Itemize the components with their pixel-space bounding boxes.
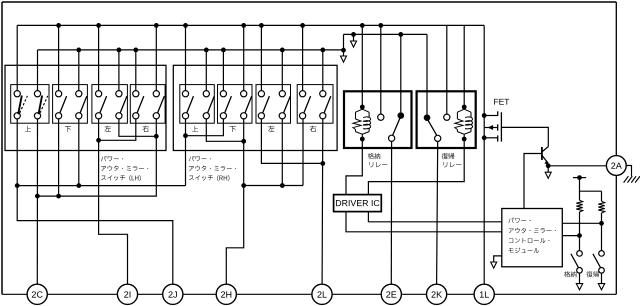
node: coil1 bottom dot: [360, 137, 365, 142]
node: coil1 top dot: [360, 105, 365, 110]
switch lever: [137, 96, 144, 113]
wire: coil2 bottom to DRIVER IC: [368, 139, 464, 195]
node dots RH area: [183, 133, 188, 138]
wire: RH upper jog (up-L dot to down-L contact): [186, 119, 224, 136]
switch contact circles col x=78.8: [76, 91, 82, 97]
FET body arrow: [487, 125, 493, 130]
node dots LH area: [96, 138, 101, 143]
wire: LH col 156.3 down to wire2 corner: [38, 119, 157, 196]
node dots on switch columns: [577, 233, 582, 238]
connector 2H: [216, 284, 236, 304]
wire + ground arrow: [601, 273, 603, 284]
switch lever: [263, 96, 270, 113]
relay 2 (return relay) box: [417, 91, 476, 148]
wire + ground arrow: [579, 273, 581, 284]
label 右: [142, 126, 148, 132]
relay2 NC contact: [446, 25, 448, 114]
node: coil2 bottom dot: [462, 137, 467, 142]
wire: bar down and across to both resistors: [580, 178, 602, 192]
switch lever: [245, 96, 252, 113]
module label text: [509, 238, 550, 243]
resistor R1 (retract): [579, 191, 581, 200]
relay1 NC contact: [380, 25, 382, 114]
switch contact circles col x=243.7: [241, 91, 247, 97]
block label text: [101, 166, 148, 171]
switch contact circles: [599, 251, 605, 257]
wire: relay1 lever down to 2E: [390, 141, 392, 284]
wire: bottom connector line segments: [2, 293, 27, 295]
power outer mirror control module box: [502, 209, 563, 267]
arrow: to other circuit (from bus1b): [353, 34, 355, 41]
label 下: [65, 126, 71, 132]
arrow: to other circuit (from bus2 end): [343, 50, 345, 56]
relay1 coil column from bus1: [361, 25, 363, 107]
relay coil body: [463, 107, 465, 109]
wire: RH left-L to right-R link at y=163.4: [261, 119, 322, 163]
wire: bus 1b (relay contact feed): [344, 33, 428, 35]
switch contact circles col x=135.8: [133, 91, 139, 97]
switch sub-box 左: [92, 85, 128, 124]
relay1 armature contact + lever: [389, 135, 395, 141]
wire: emitter to 2A: [548, 165, 606, 167]
connector 1L: [474, 284, 494, 304]
relay2 coil column from bus1: [463, 25, 465, 107]
switch lever: [120, 96, 127, 113]
block label text: [189, 175, 229, 181]
connector 2I: [117, 284, 137, 304]
module label text: [509, 248, 539, 253]
wire: bus1 down FET column to 1L: [483, 25, 485, 284]
label 下: [230, 126, 236, 132]
switch contact circles col x=185.5: [182, 91, 188, 97]
switch contact circles col x=98.6: [96, 91, 102, 97]
relay2 armature contact + lever: [435, 135, 441, 141]
switch sub-box 右: [297, 85, 333, 124]
wires: bus to top contacts: [16, 25, 18, 90]
label 復帰リレー: [442, 153, 455, 159]
label 上: [192, 126, 198, 132]
wire: LH col 17.2 down: [16, 119, 18, 186]
wire: LH col 98.6 down, jog to 2I: [99, 119, 128, 284]
FET gate bar: [500, 112, 502, 141]
wire: bus 2: [38, 49, 344, 51]
wire: R1 down to switch: [579, 212, 581, 250]
switch lever (rest position, dashed): [20, 96, 28, 113]
connector 2C: [27, 284, 47, 304]
connector 2E: [381, 284, 401, 304]
FET symbol: channel segments: [497, 111, 499, 116]
label: [586, 271, 599, 277]
wire 3 to 2J: [17, 186, 173, 285]
DRIVER IC box: [334, 195, 382, 212]
switch lever (actuated, solid): [18, 96, 22, 115]
wire: RH col 185.5 down to wire1L end: [185, 119, 187, 186]
wire: top bus 1: [17, 24, 484, 26]
relay 1 (retract relay) box: [344, 91, 412, 148]
switch lever: [593, 254, 601, 268]
wire: LH col 37.5 down to 2C: [36, 119, 38, 284]
switch contact circles col x=17.2: [14, 91, 20, 97]
resistor R2 (return): [601, 191, 603, 201]
module label text: [509, 228, 556, 233]
switch sub-box 上: [180, 85, 215, 124]
wire: bus1b-to-bus2 link: [343, 34, 345, 50]
connector 2A: [606, 156, 626, 176]
wire: RH col 303 down to wire1R corner: [302, 119, 304, 186]
label FET: [494, 99, 509, 105]
switch sub-box 下: [218, 85, 253, 124]
node: emitter junction: [546, 163, 551, 168]
switch contact circles col x=282.3: [279, 91, 285, 97]
label 左: [268, 126, 274, 132]
wire: coil1 bottom to DRIVER IC: [346, 139, 362, 195]
label 左: [105, 126, 111, 132]
switch sub-box 左: [256, 85, 291, 124]
switch contact circles col x=118.9: [116, 91, 122, 97]
switch contact circles col x=156.3: [153, 91, 159, 97]
switch contact circles col x=302.6: [300, 91, 306, 97]
node: coil2 top dot: [462, 105, 467, 110]
node: junction dots on bus1: [56, 23, 61, 28]
wire: right border top segment (frame to connector 2A): [615, 2, 617, 156]
switch lever: [225, 96, 232, 113]
switch sub-box 右: [130, 85, 165, 124]
wire: R2 down to switch: [601, 213, 603, 250]
wire: FET drain to transistor collector: [501, 127, 548, 146]
wire: RH col 243.7 down, jog to 2H: [226, 119, 243, 284]
switch contact circles: [577, 251, 583, 257]
wire: module right to retract switch line: [562, 235, 579, 237]
switch contact circles col x=223.4: [220, 91, 226, 97]
switch lever: [304, 96, 311, 113]
relay2 NO contact (filled) from bus1b: [426, 34, 428, 114]
switch lever: [157, 96, 164, 113]
switch lever: [571, 254, 579, 268]
block label text: [101, 156, 123, 161]
connector 2L: [312, 284, 332, 304]
FET leads: [484, 115, 498, 117]
wire: module left to ground arrow: [494, 256, 502, 262]
label: [564, 271, 576, 277]
node: junction dots on bus1b: [351, 32, 356, 37]
wire: relay2 lever down to 2K: [437, 142, 438, 285]
wire: module right to return switch line: [562, 222, 601, 224]
module label text: [508, 218, 530, 223]
label DRIVER IC: [336, 200, 379, 206]
switch sub-box 下: [53, 85, 88, 124]
block label text: [101, 175, 141, 181]
label 右: [310, 126, 316, 132]
wire: RH lower jog (up-R contact to down-R line): [206, 119, 243, 141]
connector 2J: [163, 284, 183, 304]
wire 1L: [17, 185, 185, 187]
wire: DRIVER IC out left to module: [346, 212, 502, 232]
power outer mirror switch block outline: [5, 65, 166, 150]
wire: LH col 78.8 down to wire1L: [78, 119, 80, 186]
switch lever: [324, 96, 331, 113]
switch contact circles col x=37.5: [34, 91, 40, 97]
ground symbol at 2A: [626, 166, 631, 177]
switch contact circles col x=206.3: [203, 91, 209, 97]
relay coil body: [361, 107, 363, 109]
relay1 NO contact (filled): [400, 34, 402, 112]
wire: RH col 282.3 down to wire1R: [281, 119, 283, 186]
wire: LH lower jog (left-L to right-L): [99, 119, 136, 140]
transistor Q1: [541, 147, 543, 160]
switch lever: [60, 96, 67, 113]
node: FET dots: [482, 113, 487, 118]
outer frame top border: [2, 1, 616, 3]
switch contact circles col x=261.4: [258, 91, 264, 97]
label 格納リレー: [368, 153, 380, 159]
label 上: [25, 126, 31, 132]
wire: RH col 322.8 down to 2L: [321, 119, 324, 284]
switch lever: [187, 96, 194, 113]
wire: base lead to module: [524, 154, 542, 209]
switch lever: [80, 96, 87, 113]
wire: LH upper jog (left-R to right-R): [119, 119, 156, 136]
wire 1R: [244, 185, 303, 187]
floating tap bar: [573, 177, 586, 179]
switch lever: [100, 96, 107, 113]
power outer mirror switch block outline: [173, 65, 337, 150]
switch contact circles col x=322.8: [320, 91, 326, 97]
switch lever (actuated, solid): [39, 96, 43, 115]
block label text: [189, 156, 211, 161]
arrow: emitter to ground ref: [547, 166, 549, 172]
connector 2K: [427, 284, 447, 304]
switch contact circles col x=58.6: [56, 91, 62, 97]
wire: DRIVER IC out right to module: [368, 212, 501, 222]
wire: LH col 58.6 down to wire2: [58, 119, 60, 196]
node: junction dots on bus2: [76, 48, 81, 53]
block label text: [189, 166, 236, 171]
wire: right border bottom segment (2A to bottom-right corner): [615, 175, 617, 294]
switch lever: [207, 96, 214, 113]
switch sub-box 上: [11, 85, 49, 124]
outer frame left border: [1, 2, 3, 294]
switch lever (rest position, dashed): [40, 96, 48, 113]
switch lever: [283, 96, 290, 113]
